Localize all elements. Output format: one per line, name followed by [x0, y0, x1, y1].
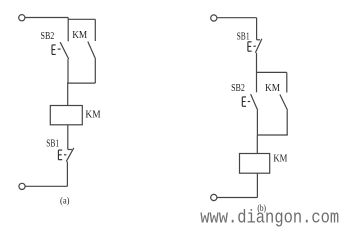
pushbutton SB1 contact (a) — [66, 148, 74, 162]
wire KM branch upper (b) — [286, 72, 288, 92]
svg-text:www.diangon.com: www.diangon.com — [200, 209, 339, 229]
actuator dash of SB1 (b) — [253, 45, 255, 47]
actuator E of SB2 (b) — [242, 97, 246, 106]
svg-text:SB1: SB1 — [46, 139, 59, 150]
actuator E of SB1 (b) — [248, 42, 252, 51]
contact KM (b) — [280, 95, 288, 111]
wire join to coil (b) — [256, 135, 258, 154]
pushbutton SB2 contact (b) — [251, 94, 258, 110]
wire coil to SB1 (a) — [67, 125, 69, 150]
pushbutton SB2 contact (a) — [60, 42, 68, 59]
svg-text:SB2: SB2 — [41, 31, 55, 42]
pushbutton SB1 fixed bar (a) — [68, 149, 72, 151]
svg-text:KM: KM — [72, 30, 88, 41]
terminal top (a) — [19, 15, 25, 21]
pushbutton SB1 contact (b) — [255, 39, 262, 53]
actuator dash of SB1 (a) — [64, 154, 66, 156]
wire KM branch upper (a) — [94, 19, 96, 41]
wire join (a) — [68, 82, 96, 84]
pushbutton SB1 fixed bar (b) — [257, 39, 260, 41]
wire coil lower (b) — [256, 173, 258, 197]
coil KM (b) — [240, 154, 270, 174]
wire KM branch top (b) — [257, 71, 287, 73]
wire SB2 upper (a) — [67, 18, 69, 42]
actuator dash of SB2 (a) — [58, 48, 61, 50]
svg-text:KM: KM — [85, 110, 101, 121]
wire SB2 lower to coil (a) — [67, 59, 69, 105]
wire join (b) — [257, 134, 288, 136]
svg-text:KM: KM — [273, 153, 288, 164]
actuator E of SB2 (a) — [52, 45, 56, 55]
wire SB1 upper (b) — [256, 18, 258, 40]
terminal top (b) — [211, 15, 217, 21]
terminal bottom (b) — [211, 194, 217, 200]
wire KM branch top (a) — [68, 18, 95, 20]
wire bottom (a) — [25, 185, 67, 187]
wire KM branch lower (b) — [286, 110, 288, 135]
contact KM (a) — [88, 42, 96, 59]
wire SB2 lower (b) — [256, 110, 258, 135]
wire top (a) — [25, 17, 68, 19]
wire SB1 lower (a) — [66, 162, 68, 187]
svg-text:(a): (a) — [60, 196, 70, 207]
terminal bottom (a) — [19, 183, 25, 189]
svg-text:SB2: SB2 — [231, 83, 245, 94]
wire SB1 lower / SB2 upper (b) — [256, 53, 258, 93]
wire KM branch lower (a) — [94, 59, 96, 84]
actuator E of SB1 (a) — [58, 150, 62, 160]
wire bottom (b) — [217, 197, 257, 199]
svg-text:SB1: SB1 — [237, 32, 250, 43]
coil KM (a) — [50, 106, 82, 125]
wire top (b) — [217, 17, 256, 19]
svg-text:KM: KM — [265, 83, 281, 94]
actuator dash of SB2 (b) — [248, 101, 250, 103]
